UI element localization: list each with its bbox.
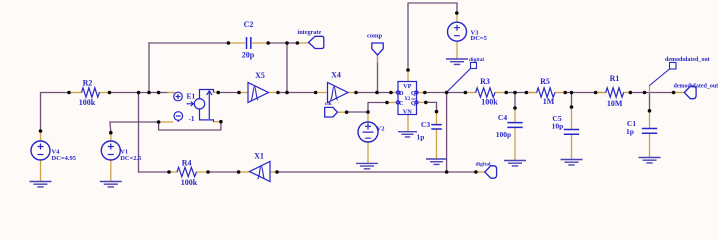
resistor R5 [537,88,555,97]
svg-text:10p: 10p [552,122,564,131]
port demodulated_out [684,86,696,98]
pin V1 bottom [110,160,112,181]
wire riser x149 main row up to C2 row [148,43,150,93]
capacitor C3 plates [431,125,442,129]
svg-text:100p: 100p [496,130,511,139]
ground V2 [356,163,378,168]
pin clk port [338,111,347,113]
wire C2 row left segment [149,42,228,44]
wire X5 output to X4 input [278,92,316,94]
wire comp riser x377.5 [377,57,379,93]
svg-text:C4: C4 [498,113,507,122]
pin X2 Q [418,92,424,94]
port digital (bottom) [485,166,497,178]
capacitor C2 plates [247,37,251,49]
source V4 [31,141,50,160]
wire riser x287 C2 row down to main row [286,43,288,93]
wire R2 right to E1 input lead [110,92,169,94]
pin V3 top [456,13,458,22]
svg-text:clk: clk [325,101,333,107]
pin X4 output [348,92,356,94]
pin E1 output bottom lead [214,121,221,123]
ground C1 [639,158,661,163]
wire V1 riser to E1 minus row [110,122,159,133]
pin C5 bottom [571,135,573,160]
pin integrate port [297,42,308,44]
wire V3 supply top run [408,3,457,70]
resistor R1 [606,88,624,97]
wire bottom row X1 input long run to digital port [277,171,476,173]
capacitor C5 plates [564,130,579,135]
svg-text:X2: X2 [404,97,411,102]
ground X2 VN [398,132,417,137]
pin E1 output top lead [214,91,219,93]
pin C3 bottom [436,130,438,159]
svg-text:R2: R2 [83,78,93,87]
svg-text:10M: 10M [607,99,623,108]
junction dots clk row and X2 [345,110,349,114]
pin X2 VP [407,70,409,82]
pin X5 output [269,92,279,94]
svg-text:demodulated_out: demodulated_out [665,57,710,63]
pin R5 right [555,92,565,94]
wire bottom row R4 to X1 [208,171,239,173]
pin C1 bottom [649,134,651,158]
svg-text:digital: digital [469,57,484,63]
pin R1 left [596,92,606,94]
wire clk row to V2 node [347,111,368,113]
pin R3 left [465,92,475,94]
resistor R3 [476,88,495,97]
svg-text:1p: 1p [626,127,634,136]
pin V3 bottom [456,41,458,58]
svg-text:comp: comp [367,33,383,40]
svg-text:VP: VP [403,83,412,90]
port comp [372,43,383,55]
port integrate [309,36,324,48]
net label square demodulated_out [670,63,677,70]
svg-text:-1: -1 [189,115,195,123]
vcvs E1 [174,90,214,123]
svg-text:X4: X4 [331,71,341,80]
wire R5 to R1 [565,92,606,94]
source V2 [358,122,378,142]
pin R1 right [624,92,631,94]
svg-text:DC=2.5: DC=2.5 [120,155,142,162]
capacitor C1 plates [642,129,657,134]
svg-text:D: D [399,90,404,97]
pin V1 top [110,133,112,141]
pin V4 bottom [40,160,42,181]
ground V4 [30,182,52,187]
pin demodulated_out port [674,92,685,94]
pin C2 left [228,42,244,44]
pin X2 D [391,92,396,94]
net label link digital [447,69,471,93]
svg-text:E1: E1 [187,92,196,101]
pin V2 bottom [367,142,369,163]
svg-text:Q: Q [411,90,416,97]
pin E1 plus input lead [168,92,174,94]
svg-text:digital: digital [476,161,491,167]
wire X4 output to X2 D pin [356,92,391,94]
svg-text:V2: V2 [377,126,385,133]
svg-text:1M: 1M [543,97,555,106]
svg-text:C3: C3 [421,120,430,129]
pin C1 top [649,111,651,128]
port clk [325,107,338,117]
pin X2 C [387,102,396,104]
pin E1 minus input lead [159,121,173,123]
wire riser x446.6 main row down to bottom row [446,93,448,173]
pin R4 right [197,171,209,173]
junction dots C2 row [227,41,231,45]
source V3 [448,22,467,41]
svg-text:demodulated_out: demodulated_out [674,84,718,90]
wire R3 to R5 [506,92,536,94]
pin R2 left [69,92,82,94]
pin X2 Qbar [418,101,425,103]
buffer X5 [248,83,269,103]
svg-text:R1: R1 [610,74,620,83]
pin R3 right [495,92,506,94]
pin X4 input [316,92,328,94]
pin C4 top [514,108,516,122]
pin C2 right [253,42,269,44]
pin X1 output [239,171,250,173]
svg-text:integrate: integrate [298,29,322,36]
buffer X4 [328,83,349,103]
source V1 [101,141,120,160]
wire C4 riser [514,93,516,109]
pin R2 right [99,92,110,94]
svg-text:R4: R4 [182,158,192,167]
net label link demodulated_out [650,69,670,86]
pin C3 top [436,112,438,124]
svg-text:20p: 20p [242,51,255,60]
capacitor C4 plates [507,123,522,128]
junction dots sources and caps [39,129,43,133]
pin V2 top [367,112,369,122]
wire Q-bar to C3 [425,102,437,111]
svg-text:100k: 100k [481,98,498,107]
svg-text:R5: R5 [540,77,550,86]
resistor R4 [177,167,196,176]
ground C3 [426,159,447,164]
resistor R2 [82,88,100,97]
ground V1 [100,182,122,187]
pin R4 left [169,171,177,173]
pin C1 node up-stub to net label [649,86,651,93]
wire C5 riser [571,93,573,108]
svg-text:DC=5: DC=5 [471,35,488,42]
ground C4 [504,161,526,166]
junction dots bottom row [167,170,171,174]
dff X2 body [396,82,418,115]
pin digital port [476,171,485,173]
wire bottom row left [139,171,170,173]
wire E1 feedback U-loop [159,122,221,130]
pin C4 bottom [514,128,516,160]
wire clk node up to X2 C pin [368,103,387,113]
wire main row left from V4 corner to R2 [41,93,70,132]
pin C5 top [571,107,573,129]
wire R1 to demodulated_out port [630,92,673,94]
wire C2 row right segment to integrate port [268,42,297,44]
pin X1 input [270,171,277,173]
svg-text:X5: X5 [255,71,265,80]
wire X2 Q output to R3 [425,92,466,94]
svg-text:100k: 100k [79,98,96,107]
pin R5 left [526,92,536,94]
svg-text:Q: Q [411,100,416,107]
ground C5 [561,160,583,165]
wire C1 riser [649,93,651,111]
net label square digital [471,63,477,69]
pin V4 top [40,131,42,141]
pin X5 input [239,92,248,94]
svg-text:X1: X1 [254,152,264,161]
svg-text:R3: R3 [480,77,490,86]
svg-text:DC=4.95: DC=4.95 [52,155,77,162]
wire E1 output to X5 input [218,92,239,94]
pin X2 VN [407,115,409,132]
svg-text:C2: C2 [244,20,254,29]
junction dots main row [67,91,71,95]
pin comp port [377,55,379,62]
svg-text:1p: 1p [417,133,425,142]
svg-text:VN: VN [403,109,413,116]
buffer X1 (pointing left) [250,162,271,182]
svg-text:100k: 100k [181,178,198,187]
ground V3 [446,59,468,64]
wire riser x138.5 main row down to bottom row [138,93,140,173]
